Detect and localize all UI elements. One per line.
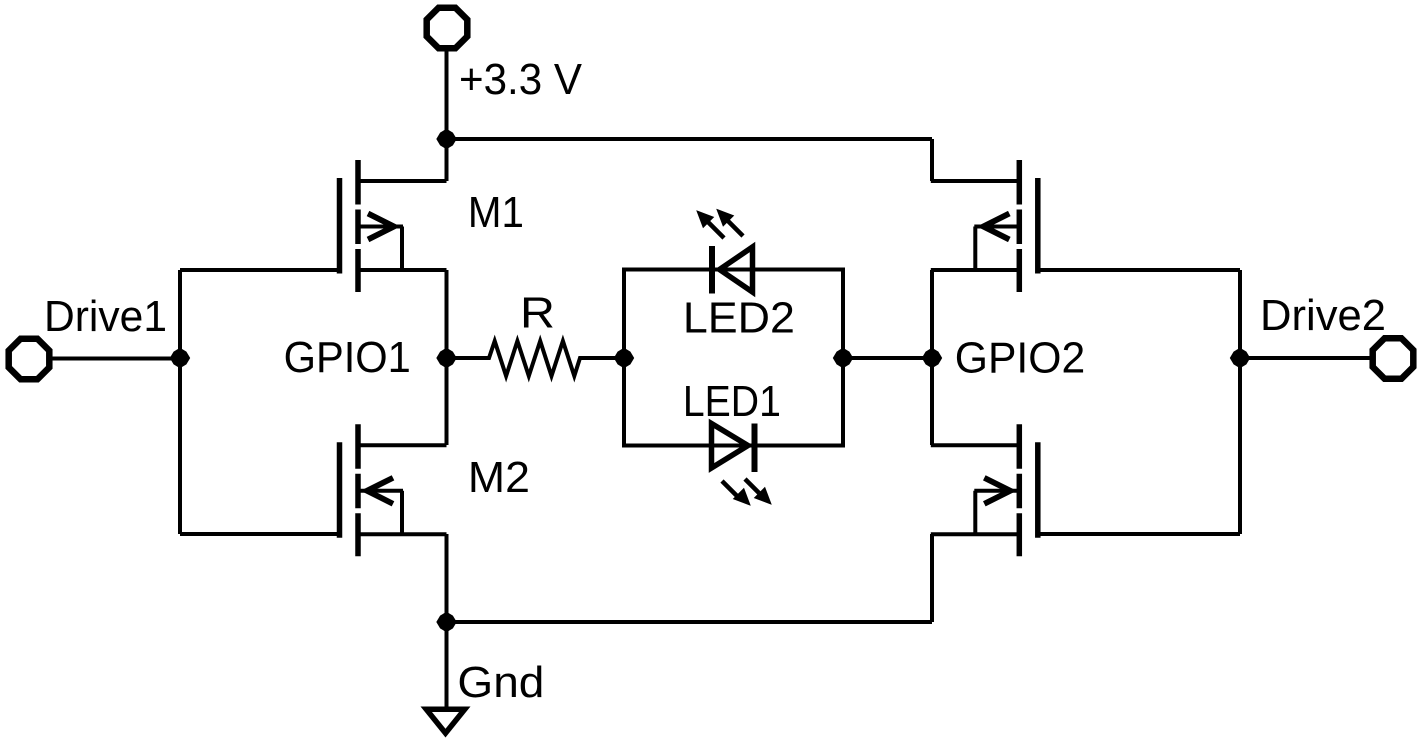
svg-text:Gnd: Gnd — [457, 658, 544, 707]
svg-text:M1: M1 — [468, 188, 524, 237]
svg-text:LED1: LED1 — [683, 377, 781, 426]
svg-text:+3.3 V: +3.3 V — [459, 55, 583, 104]
svg-text:R: R — [520, 289, 555, 338]
svg-text:GPIO2: GPIO2 — [955, 334, 1085, 383]
svg-text:M2: M2 — [468, 453, 530, 502]
svg-text:Drive2: Drive2 — [1260, 291, 1386, 340]
svg-text:GPIO1: GPIO1 — [284, 333, 411, 382]
svg-text:Drive1: Drive1 — [44, 292, 167, 341]
svg-text:LED2: LED2 — [683, 293, 795, 342]
